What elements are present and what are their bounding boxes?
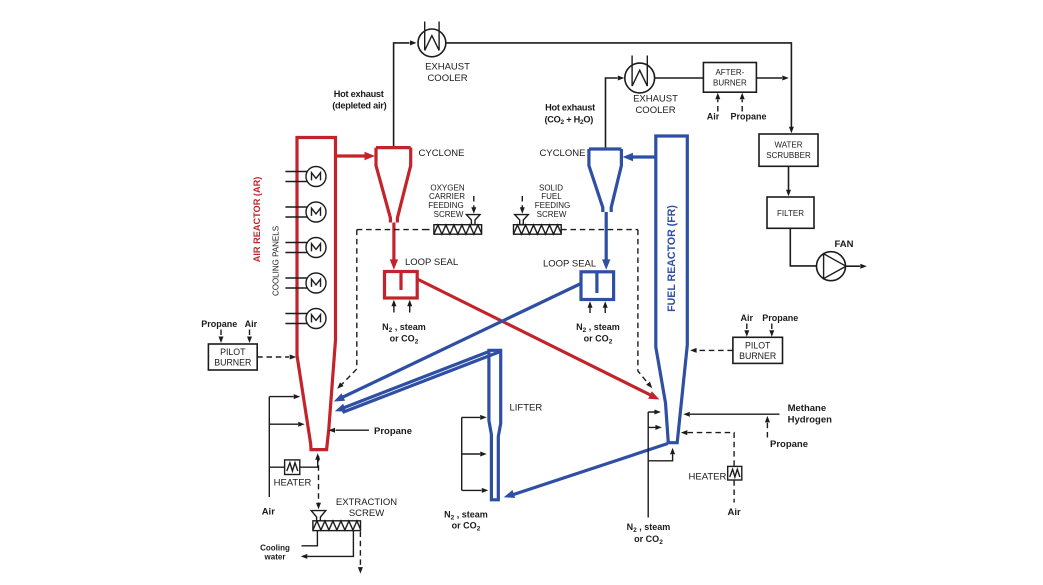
svg-text:PILOT: PILOT: [220, 347, 246, 357]
cyclone FR (blue): [589, 149, 622, 212]
extraction funnel: [311, 511, 326, 521]
svg-text:COOLER: COOLER: [635, 105, 675, 116]
blue return line FR bottom to lifter bottom: [512, 444, 668, 496]
cyclone AR (red): [376, 148, 411, 223]
black arrows into loop seal FR: [590, 306, 605, 313]
red wire cyclone to loop seal: [392, 223, 395, 262]
cooling water out wire: [307, 531, 353, 557]
FR feed bracket: [648, 412, 672, 518]
cooling panel 2: [285, 202, 326, 222]
cooling panel 5: [285, 309, 326, 329]
dashed feed arrow into solid fuel funnel: [521, 196, 523, 208]
dashed air arrow into pilot burner L: [249, 330, 251, 338]
svg-text:Propane: Propane: [730, 112, 766, 122]
svg-text:HEATER: HEATER: [689, 471, 727, 482]
wire after-burner to junction: [756, 77, 782, 79]
svg-text:Hot exhaust: Hot exhaust: [545, 103, 595, 113]
svg-text:LOOP SEAL: LOOP SEAL: [405, 257, 458, 268]
svg-text:AIR REACTOR (AR): AIR REACTOR (AR): [252, 177, 262, 263]
cooling panel 4: [285, 273, 326, 293]
dashed air arrow into pilot burner R: [746, 324, 748, 332]
svg-text:LOOP SEAL: LOOP SEAL: [543, 258, 596, 269]
wire exhaust cooler 1 to water scrubber (top run): [446, 43, 792, 128]
air reactor AR body: [297, 138, 336, 450]
svg-text:Propane: Propane: [762, 313, 798, 323]
svg-text:Hot exhaust: Hot exhaust: [334, 89, 384, 99]
lifter duct to AR (upper line): [339, 352, 489, 410]
svg-text:HEATER: HEATER: [274, 478, 312, 489]
solid fuel funnel: [515, 215, 529, 225]
svg-text:SOLID: SOLID: [539, 184, 563, 193]
dashed propane arrow into pilot burner L: [220, 330, 222, 338]
svg-text:or CO2: or CO2: [634, 534, 663, 546]
exhaust cooler 1: [418, 22, 446, 57]
wire heater L to AR bottom: [300, 460, 318, 468]
svg-text:FEEDING: FEEDING: [535, 201, 571, 210]
svg-text:or CO2: or CO2: [584, 334, 613, 346]
svg-text:FEEDING: FEEDING: [428, 201, 464, 210]
svg-text:FAN: FAN: [835, 239, 854, 250]
svg-text:Air: Air: [727, 507, 741, 518]
svg-text:SCREW: SCREW: [434, 210, 464, 219]
filter box: [767, 197, 814, 228]
svg-text:EXHAUST: EXHAUST: [633, 94, 678, 105]
dashed line screws to AR dashed drop: [357, 229, 434, 231]
svg-text:EXHAUST: EXHAUST: [425, 62, 470, 73]
svg-text:WATER: WATER: [775, 140, 803, 149]
loop seal AR (red): [385, 272, 418, 299]
svg-text:PILOT: PILOT: [745, 340, 771, 350]
methane hydrogen wire into FR: [690, 413, 780, 415]
dashed propane feed to after-burner: [741, 100, 743, 112]
svg-text:N2 , steam: N2 , steam: [576, 322, 620, 334]
cooling panel 3: [285, 238, 326, 258]
AR air feed bracket: [269, 397, 298, 497]
svg-text:COOLING PANELS: COOLING PANELS: [272, 226, 281, 296]
wire cyclone FR top to exhaust cooler 2: [606, 78, 618, 149]
heater L box: [285, 460, 300, 475]
dashed AR bottom to extraction funnel: [318, 456, 320, 503]
svg-text:Methane: Methane: [788, 403, 827, 414]
blue arrow FR to cyclone: [631, 155, 656, 158]
svg-text:SCREW: SCREW: [349, 508, 384, 519]
dashed extraction screw outlet: [359, 532, 361, 568]
solid fuel screw: [514, 225, 562, 235]
svg-text:Hydrogen: Hydrogen: [788, 415, 833, 426]
svg-text:water: water: [264, 552, 286, 561]
wire fan outlet: [846, 265, 861, 267]
pilot burner L box: [208, 344, 257, 370]
fan: [817, 252, 847, 281]
svg-text:or CO2: or CO2: [390, 334, 419, 346]
svg-text:BURNER: BURNER: [214, 358, 251, 368]
svg-text:FUEL REACTOR (FR): FUEL REACTOR (FR): [666, 205, 678, 312]
svg-text:Air: Air: [262, 506, 276, 517]
lifter body: [489, 350, 501, 500]
svg-text:Cooling: Cooling: [260, 544, 290, 553]
svg-text:CYCLONE: CYCLONE: [419, 148, 465, 159]
loop seal FR (blue): [581, 272, 614, 300]
dashed drop left into AR: [341, 230, 357, 386]
dashed drop right into FR: [638, 230, 649, 385]
svg-text:Air: Air: [741, 313, 754, 323]
svg-text:CYCLONE: CYCLONE: [540, 148, 586, 159]
oxygen carrier screw: [434, 225, 482, 235]
dashed pilot burner R to FR: [697, 349, 733, 351]
blue wire cyclone to loop seal FR: [605, 212, 608, 261]
svg-text:N2 , steam: N2 , steam: [382, 322, 426, 334]
extraction screw: [313, 521, 361, 531]
svg-text:Air: Air: [245, 319, 258, 329]
propane arrow into AR: [336, 429, 370, 431]
svg-text:CARRIER: CARRIER: [429, 192, 465, 201]
pilot burner R box: [733, 337, 783, 363]
black arrows into loop seal AR: [394, 305, 410, 313]
svg-text:Propane: Propane: [374, 426, 412, 437]
svg-text:(depleted air): (depleted air): [332, 101, 386, 111]
svg-text:SCRUBBER: SCRUBBER: [766, 151, 811, 160]
wire cooler 2 to after-burner: [655, 77, 704, 79]
svg-text:BURNER: BURNER: [713, 78, 747, 87]
dashed air feed below heater R: [733, 480, 735, 502]
svg-text:AFTER-: AFTER-: [715, 68, 744, 77]
red transfer line AR loop seal to FR bottom: [417, 279, 652, 396]
svg-text:Propane: Propane: [770, 439, 808, 450]
dashed feed arrow into oxygen funnel: [473, 196, 475, 208]
svg-text:BURNER: BURNER: [739, 351, 776, 361]
oxygen carrier funnel: [466, 215, 480, 225]
svg-text:Propane: Propane: [201, 319, 237, 329]
wire scrubber to filter: [788, 166, 790, 190]
svg-text:FUEL: FUEL: [541, 192, 562, 201]
svg-text:LIFTER: LIFTER: [510, 403, 543, 414]
red arrow AR to cyclone: [336, 154, 367, 157]
svg-text:Air: Air: [707, 112, 720, 122]
lifter duct to AR (lower line): [343, 351, 502, 412]
svg-text:OXYGEN: OXYGEN: [430, 184, 464, 193]
dashed heater R feed into FR: [688, 433, 735, 467]
water scrubber box: [759, 134, 818, 166]
dashed propane arrow into pilot burner R: [771, 324, 773, 332]
svg-text:N2 , steam: N2 , steam: [627, 522, 671, 534]
svg-text:FILTER: FILTER: [777, 209, 804, 218]
lifter feed bracket: [462, 417, 482, 490]
dashed propane riser (right): [766, 422, 768, 438]
exhaust cooler 2: [625, 56, 655, 93]
dashed pilot burner L to AR: [257, 356, 289, 358]
svg-text:SCREW: SCREW: [537, 210, 567, 219]
wire cyclone AR top to exhaust cooler 1: [394, 43, 410, 148]
blue transfer line FR loop seal to AR bottom: [341, 284, 581, 399]
wire filter to fan: [790, 228, 816, 266]
fuel reactor FR body: [656, 136, 688, 443]
dashed air feed to after-burner: [717, 100, 719, 112]
heater R box: [728, 466, 742, 480]
dashed line solid screw to FR dashed drop: [561, 229, 638, 231]
cooling water in wire: [302, 531, 318, 546]
svg-text:or CO2: or CO2: [452, 521, 481, 533]
cooling panel 1: [285, 167, 326, 187]
svg-text:(CO2 + H2O): (CO2 + H2O): [544, 114, 593, 126]
after-burner box: [703, 63, 756, 93]
svg-text:EXTRACTION: EXTRACTION: [336, 497, 397, 508]
svg-text:COOLER: COOLER: [427, 73, 467, 84]
